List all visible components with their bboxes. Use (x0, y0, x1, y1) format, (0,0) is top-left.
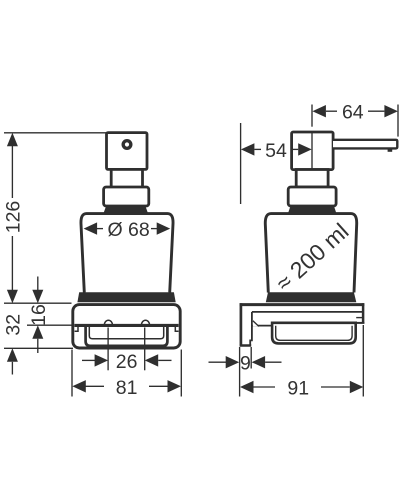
dimension 126 (2, 133, 24, 303)
svg-text:91: 91 (287, 378, 309, 400)
dimension 16 (28, 277, 50, 354)
wall bracket vertical leg (240, 303, 243, 345)
dimension 64 (312, 102, 398, 124)
insert outer (front) (86, 326, 168, 346)
svg-text:Ø 68: Ø 68 (107, 219, 149, 241)
svg-text:26: 26 (116, 351, 138, 373)
dimension 81 (72, 350, 181, 399)
holder ledge line (front) (74, 324, 178, 327)
svg-text:9: 9 (240, 353, 251, 375)
svg-text:126: 126 (2, 201, 24, 234)
extension line pump axis above head (311, 105, 313, 127)
tube hole arc left (104, 320, 112, 325)
svg-text:64: 64 (342, 102, 364, 124)
extension line wall (54) (240, 123, 242, 204)
collar dark base (side) (288, 206, 336, 213)
extension line wall bottom (9/91 left) (239, 347, 241, 397)
pump head (front) (107, 133, 148, 170)
ledge to dish (side) (252, 325, 273, 327)
bracket corner notch (253, 321, 259, 327)
bottle (front) (81, 214, 173, 293)
svg-text:81: 81 (116, 377, 138, 399)
spout (333, 140, 397, 149)
extension line pump-head top (4, 132, 107, 134)
extension line holder top (4, 302, 72, 304)
pump collar (front) (104, 187, 149, 206)
dimension 9 (209, 353, 282, 375)
bottle bottom band (front) (77, 292, 175, 302)
dimension 32 (2, 314, 24, 375)
holder right end cap (362, 303, 365, 323)
pump neck (side) (296, 170, 328, 188)
insert inner (front) (89, 327, 163, 339)
extension line holder right (91) (362, 325, 364, 397)
svg-text:32: 32 (2, 314, 24, 336)
holder plate underside (side) (252, 311, 363, 313)
wall bracket foot (240, 344, 252, 347)
extension line bracket front (9 right) (250, 347, 252, 369)
wall bracket inner edge (250, 312, 252, 345)
extension line holder bottom (4, 347, 73, 349)
svg-text:54: 54 (265, 140, 287, 162)
collar dark base (front) (104, 206, 148, 213)
svg-text:16: 16 (28, 304, 50, 326)
pump collar (side) (288, 187, 336, 206)
holder right inner step (175, 327, 178, 332)
dimension 91 (240, 378, 363, 400)
extension line nozzle tip (397, 105, 399, 137)
bottle (side) (265, 214, 356, 293)
holder body (front) (73, 305, 180, 348)
pump head circle (123, 141, 131, 149)
pump head (side) (292, 132, 334, 170)
dimension 54 (241, 140, 312, 162)
holder plate top (side) (240, 303, 365, 306)
pump axis centerline in head (311, 132, 313, 169)
holder left inner step (75, 327, 78, 332)
dish outer (side) (272, 323, 356, 344)
dimension Ø68 (84, 219, 171, 241)
extension line insert ledge (16) (27, 324, 75, 326)
bottle bottom band (side) (266, 292, 357, 302)
dimension 26 (82, 328, 172, 374)
pump neck (front) (111, 169, 142, 187)
tube hole arc right (141, 320, 149, 325)
dish inner (side) (276, 326, 352, 341)
